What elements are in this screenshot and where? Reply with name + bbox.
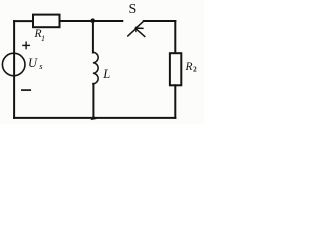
switch S arrow barb horizontal <box>136 27 143 29</box>
bottom wire <box>14 117 175 119</box>
svg-text:1: 1 <box>41 34 45 43</box>
svg-text:2: 2 <box>193 65 197 74</box>
switch S arrow shaft <box>135 28 145 36</box>
resistor R1 <box>33 15 60 28</box>
wire switch right contact to corner <box>144 20 175 22</box>
wire R1 to node A <box>60 20 93 22</box>
polarity plus <box>23 42 29 48</box>
voltage source Us circle <box>2 53 25 76</box>
switch S arrow barb vertical <box>135 27 137 31</box>
inductor L <box>93 52 98 84</box>
wire R2 to bottom rail <box>174 85 176 118</box>
wire right vertical to R2 <box>174 21 176 53</box>
junction node A <box>90 18 95 23</box>
polarity minus <box>22 89 30 91</box>
wire inductor to bottom rail <box>92 84 94 118</box>
svg-text:L: L <box>102 67 110 81</box>
wire node A down to inductor <box>92 21 94 53</box>
svg-text:S: S <box>129 2 137 17</box>
svg-text:R: R <box>185 61 193 73</box>
switch S blade <box>128 21 144 36</box>
resistor R2 <box>170 53 181 85</box>
svg-text:U: U <box>28 56 38 70</box>
wire node A to switch left contact <box>93 20 123 22</box>
wire top-left horizontal <box>14 20 34 22</box>
junction node B (bottom) <box>90 116 97 120</box>
wire left vertical (source branch) <box>13 21 15 118</box>
